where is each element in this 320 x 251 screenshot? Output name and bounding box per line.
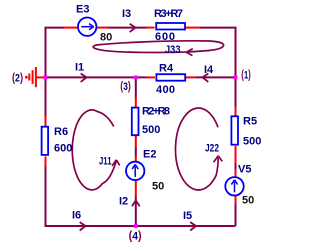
current arrow I2 — [132, 201, 140, 207]
junction dot at node 1 — [234, 76, 238, 80]
loop arrow J33 — [93, 41, 223, 56]
svg-text:R4: R4 — [159, 63, 174, 75]
current arrow I5 — [190, 222, 196, 230]
resistor R6 — [42, 127, 49, 155]
current source E2 — [126, 162, 144, 180]
svg-text:I3: I3 — [122, 8, 131, 20]
svg-text:(4): (4) — [129, 231, 142, 243]
svg-text:I6: I6 — [72, 210, 81, 222]
junction dot at node 4 — [134, 224, 138, 228]
svg-text:500: 500 — [142, 124, 160, 136]
resistor R4 — [156, 74, 185, 81]
svg-text:V5: V5 — [238, 164, 251, 176]
svg-text:R6: R6 — [54, 126, 68, 138]
svg-text:I4: I4 — [204, 64, 214, 76]
current source V5 — [225, 177, 243, 195]
svg-text:600: 600 — [155, 31, 175, 43]
svg-text:I5: I5 — [183, 210, 192, 222]
svg-text:E3: E3 — [76, 4, 89, 16]
svg-text:400: 400 — [156, 84, 175, 96]
current arrow I3 — [130, 24, 136, 32]
svg-text:(1): (1) — [241, 70, 251, 82]
svg-text:80: 80 — [100, 32, 112, 44]
wire middle vertical — [135, 77, 137, 226]
wire top horizontal maroon segments — [46, 28, 236, 107]
svg-text:600: 600 — [54, 143, 72, 155]
resistor R5 — [231, 116, 238, 144]
ground symbol at node 2 — [29, 67, 44, 87]
svg-text:I2: I2 — [119, 196, 128, 208]
current arrow I6 — [80, 222, 86, 230]
junction dot at node 3 — [134, 76, 138, 80]
svg-text:E2: E2 — [143, 149, 156, 161]
loop arrow J11 — [72, 110, 119, 190]
current arrow I1 — [81, 74, 87, 82]
svg-text:500: 500 — [243, 136, 261, 148]
svg-text:(2): (2) — [12, 73, 23, 85]
resistor R3+R7 — [156, 23, 185, 30]
svg-text:(3): (3) — [120, 81, 131, 93]
svg-text:50: 50 — [152, 181, 164, 193]
resistor R2+R8 — [132, 108, 139, 136]
junction dot at node 2 — [44, 76, 48, 80]
svg-text:R5: R5 — [243, 116, 257, 128]
wire left vertical — [46, 77, 236, 226]
current source E3 — [78, 18, 96, 36]
svg-text:I1: I1 — [75, 62, 84, 74]
svg-text:J33: J33 — [165, 44, 181, 56]
svg-text:50: 50 — [242, 195, 254, 207]
svg-text:J11: J11 — [99, 156, 112, 168]
loop arrow J22 — [175, 108, 222, 190]
svg-text:R2+R8: R2+R8 — [142, 106, 170, 118]
svg-text:R3+R7: R3+R7 — [154, 8, 183, 20]
wire right vertical — [235, 163, 237, 226]
red terminal stubs — [46, 28, 236, 204]
wire middle horizontal — [46, 76, 236, 78]
svg-text:J22: J22 — [205, 142, 219, 154]
current arrow I4 — [203, 74, 209, 82]
